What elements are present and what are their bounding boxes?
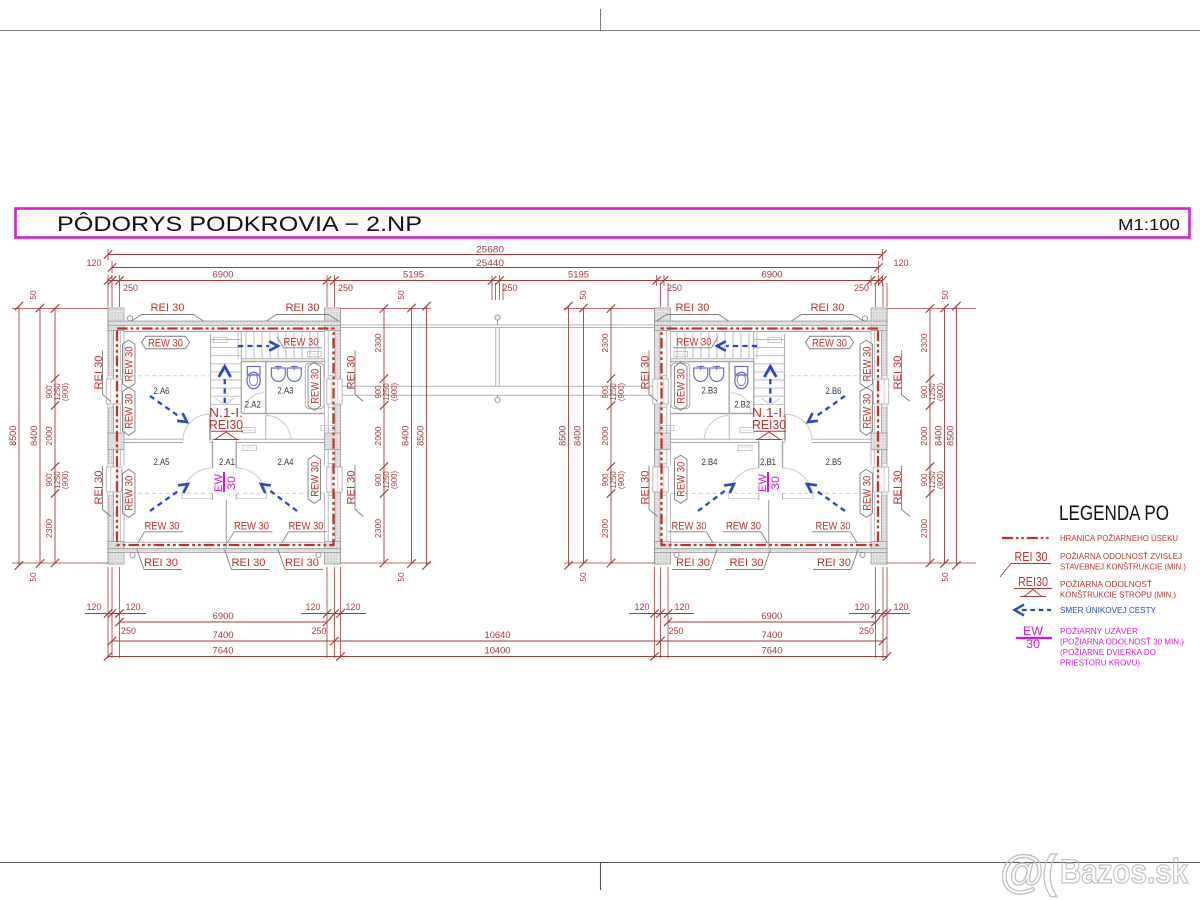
svg-text:2000: 2000 <box>919 426 929 445</box>
svg-text:(900): (900) <box>61 470 70 489</box>
svg-text:REI30: REI30 <box>209 418 243 432</box>
bathtub <box>305 363 324 408</box>
svg-text:30: 30 <box>226 476 238 490</box>
escape arrows <box>698 341 845 511</box>
svg-text:8500: 8500 <box>946 426 956 446</box>
svg-text:REW 30: REW 30 <box>234 521 269 533</box>
svg-text:2.B4: 2.B4 <box>702 457 718 467</box>
svg-text:8500: 8500 <box>8 426 18 446</box>
svg-text:REW 30: REW 30 <box>124 347 136 382</box>
svg-text:REW 30: REW 30 <box>726 521 761 533</box>
svg-text:REI 30: REI 30 <box>817 557 851 569</box>
svg-text:50: 50 <box>579 290 588 300</box>
svg-text:50: 50 <box>941 290 950 300</box>
svg-text:REW 30: REW 30 <box>148 338 183 350</box>
svg-text:REW 30: REW 30 <box>861 476 873 511</box>
unit walls <box>106 308 342 564</box>
room labels <box>702 386 842 468</box>
legend item REI30 ceiling <box>1014 575 1176 600</box>
svg-text:(900): (900) <box>617 382 626 401</box>
svg-text:REI 30: REI 30 <box>640 471 652 505</box>
svg-text:(900): (900) <box>390 382 399 401</box>
svg-text:REW 30: REW 30 <box>309 369 321 404</box>
svg-text:REI 30: REI 30 <box>640 356 652 390</box>
svg-text:250: 250 <box>669 626 684 636</box>
svg-text:6900: 6900 <box>213 611 234 621</box>
svg-text:REI 30: REI 30 <box>892 471 904 505</box>
svg-text:120: 120 <box>306 602 321 612</box>
svg-text:SMER ÚNIKOVEJ CESTY: SMER ÚNIKOVEJ CESTY <box>1060 605 1157 615</box>
svg-text:POŽIARNA ODOLNOSŤ ZVISLEJ: POŽIARNA ODOLNOSŤ ZVISLEJ <box>1060 551 1182 561</box>
svg-text:250: 250 <box>854 283 869 293</box>
svg-text:REW 30: REW 30 <box>124 476 136 511</box>
svg-text:8400: 8400 <box>573 426 583 446</box>
unit inner partitions <box>670 332 871 549</box>
svg-text:REW 30: REW 30 <box>676 369 688 404</box>
svg-text:REW 30: REW 30 <box>677 337 712 349</box>
svg-text:5195: 5195 <box>568 270 589 280</box>
bathtub <box>671 363 690 408</box>
svg-text:2.B2: 2.B2 <box>734 400 750 410</box>
page top rule <box>0 9 1200 31</box>
left unit geometry <box>106 308 342 564</box>
REW 30 labels <box>668 336 873 543</box>
svg-text:120: 120 <box>87 602 102 612</box>
legend title LEGENDA PO <box>1059 501 1169 525</box>
top dimension chains <box>87 245 909 308</box>
svg-text:8400: 8400 <box>401 426 411 446</box>
EW 30 fire door label <box>213 472 238 492</box>
svg-text:7400: 7400 <box>213 630 234 640</box>
svg-text:250: 250 <box>667 283 682 293</box>
toilet <box>735 367 748 389</box>
svg-text:LEGENDA PO: LEGENDA PO <box>1059 501 1169 525</box>
svg-text:2.A2: 2.A2 <box>245 400 261 410</box>
svg-text:REW 30: REW 30 <box>861 394 873 429</box>
svg-text:250: 250 <box>503 283 518 293</box>
svg-text:120: 120 <box>855 602 870 612</box>
legend item fire boundary <box>1002 533 1178 543</box>
svg-text:REI 30: REI 30 <box>93 471 105 505</box>
svg-text:25440: 25440 <box>476 258 504 268</box>
svg-text:250: 250 <box>338 283 353 293</box>
svg-text:50: 50 <box>579 572 588 582</box>
svg-text:2.B6: 2.B6 <box>826 386 842 396</box>
svg-text:250: 250 <box>123 283 138 293</box>
svg-text:PÔDORYS PODKROVIA − 2.NP: PÔDORYS PODKROVIA − 2.NP <box>57 213 422 236</box>
svg-text:6900: 6900 <box>762 270 783 280</box>
svg-text:2.A3: 2.A3 <box>278 386 294 396</box>
svg-text:REI30: REI30 <box>752 418 786 432</box>
svg-text:2300: 2300 <box>44 519 54 538</box>
REW 30 labels <box>122 336 327 543</box>
svg-text:(900): (900) <box>390 470 399 489</box>
vertical dimension chains <box>8 290 976 582</box>
svg-text:REI 30: REI 30 <box>346 471 358 505</box>
svg-text:2000: 2000 <box>373 426 383 445</box>
svg-text:2000: 2000 <box>44 426 54 445</box>
svg-text:REI 30: REI 30 <box>892 356 904 390</box>
svg-text:120: 120 <box>126 602 141 612</box>
unit walls <box>653 308 889 564</box>
svg-text:5195: 5195 <box>403 270 424 280</box>
svg-text:REI 30: REI 30 <box>151 302 185 314</box>
svg-text:2300: 2300 <box>600 519 610 538</box>
svg-text:REI 30: REI 30 <box>676 557 710 569</box>
svg-text:(900): (900) <box>617 470 626 489</box>
svg-text:REI 30: REI 30 <box>811 302 845 314</box>
svg-text:2.A5: 2.A5 <box>154 457 170 467</box>
svg-text:REI 30: REI 30 <box>346 356 358 390</box>
svg-text:10400: 10400 <box>485 646 511 656</box>
svg-text:120: 120 <box>346 602 361 612</box>
svg-text:2300: 2300 <box>600 333 610 352</box>
svg-text:120: 120 <box>675 602 690 612</box>
svg-text:HRANICA POŽIARNEHO ÚSEKU: HRANICA POŽIARNEHO ÚSEKU <box>1060 533 1178 543</box>
svg-text:REW 30: REW 30 <box>861 347 873 382</box>
svg-text:50: 50 <box>941 572 950 582</box>
REI 30 labels around unit <box>93 302 364 570</box>
washbasins <box>271 366 301 382</box>
svg-text:REW 30: REW 30 <box>145 521 180 533</box>
svg-text:120: 120 <box>894 258 909 268</box>
svg-text:6900: 6900 <box>761 611 782 621</box>
fire boundary <box>117 329 334 546</box>
small level labels <box>214 337 335 450</box>
svg-text:REW 30: REW 30 <box>676 462 688 497</box>
svg-text:REI 30: REI 30 <box>286 302 320 314</box>
svg-text:REI 30: REI 30 <box>93 356 105 390</box>
svg-text:8400: 8400 <box>934 426 944 446</box>
svg-text:Bazos.sk: Bazos.sk <box>1060 853 1188 891</box>
svg-text:8500: 8500 <box>416 426 426 446</box>
svg-text:2000: 2000 <box>600 426 610 445</box>
svg-text:25680: 25680 <box>476 245 504 255</box>
svg-text:50: 50 <box>397 572 406 582</box>
svg-text:8400: 8400 <box>29 426 39 446</box>
svg-text:2.B5: 2.B5 <box>826 457 842 467</box>
unit inner partitions <box>124 332 325 549</box>
svg-text:POŽIARNA ODOLNOSŤ: POŽIARNA ODOLNOSŤ <box>1060 579 1152 589</box>
REI 30 labels around unit <box>640 302 911 570</box>
svg-text:REI 30: REI 30 <box>285 557 319 569</box>
svg-text:(900): (900) <box>936 470 945 489</box>
svg-text:REI 30: REI 30 <box>1015 550 1048 564</box>
page bottom rule <box>0 863 1200 891</box>
svg-text:250: 250 <box>121 626 136 636</box>
svg-text:KONŠTRUKCIE STROPU (MIN.): KONŠTRUKCIE STROPU (MIN.) <box>1060 590 1176 600</box>
svg-text:2.A1: 2.A1 <box>219 457 235 467</box>
svg-text:2.A4: 2.A4 <box>278 457 294 467</box>
svg-text:REI 30: REI 30 <box>144 557 178 569</box>
svg-text:250: 250 <box>859 626 874 636</box>
washbasins <box>694 366 724 382</box>
fire boundary <box>662 329 879 546</box>
svg-text:2300: 2300 <box>919 519 929 538</box>
svg-text:2300: 2300 <box>373 519 383 538</box>
svg-text:REW 30: REW 30 <box>816 521 851 533</box>
svg-text:@(: @( <box>1000 846 1057 897</box>
svg-text:REW 30: REW 30 <box>124 394 136 429</box>
watermark <box>1000 846 1188 897</box>
svg-text:M1:100: M1:100 <box>1118 217 1180 234</box>
svg-text:POŽIARNY UZÁVER: POŽIARNY UZÁVER <box>1060 626 1138 636</box>
small level labels <box>661 337 782 450</box>
svg-text:120: 120 <box>894 602 909 612</box>
svg-text:50: 50 <box>29 290 38 300</box>
svg-text:EW: EW <box>1023 626 1043 638</box>
svg-text:7640: 7640 <box>213 646 234 656</box>
svg-text:2300: 2300 <box>373 333 383 352</box>
svg-text:REW 30: REW 30 <box>672 521 707 533</box>
svg-text:50: 50 <box>29 572 38 582</box>
svg-text:2.B3: 2.B3 <box>702 386 718 396</box>
svg-text:7640: 7640 <box>762 646 783 656</box>
svg-text:30: 30 <box>1026 639 1040 651</box>
svg-text:STAVEBNEJ KONŠTRUKCIE (MIN.): STAVEBNEJ KONŠTRUKCIE (MIN.) <box>1060 562 1186 572</box>
svg-text:REW 30: REW 30 <box>289 521 324 533</box>
svg-text:REW 30: REW 30 <box>284 337 319 349</box>
legend item EW 30 fire door <box>1016 626 1184 668</box>
title box <box>16 209 1190 238</box>
svg-text:250: 250 <box>312 626 327 636</box>
svg-text:2.A6: 2.A6 <box>154 386 170 396</box>
svg-text:(POŽIARNA ODOLNOSŤ 30 MIN.): (POŽIARNA ODOLNOSŤ 30 MIN.) <box>1060 637 1184 647</box>
legend item REI 30 wall <box>1000 550 1186 577</box>
svg-text:REW 30: REW 30 <box>309 462 321 497</box>
svg-text:10640: 10640 <box>485 630 511 640</box>
legend item escape route <box>1015 605 1157 616</box>
svg-text:REI 30: REI 30 <box>676 302 710 314</box>
svg-text:(900): (900) <box>936 382 945 401</box>
svg-text:REI 30: REI 30 <box>232 557 266 569</box>
svg-text:2.B1: 2.B1 <box>760 457 776 467</box>
svg-text:(POŽIARNE DVIERKA DO: (POŽIARNE DVIERKA DO <box>1060 647 1156 657</box>
svg-text:120: 120 <box>87 258 102 268</box>
room labels <box>154 386 294 468</box>
svg-text:REI30: REI30 <box>1018 575 1048 589</box>
svg-text:REW 30: REW 30 <box>812 338 847 350</box>
svg-text:2300: 2300 <box>919 333 929 352</box>
toilet <box>247 367 260 389</box>
fire compartment label N.1-I. REI30 <box>209 406 243 440</box>
right unit geometry (mirrored) <box>653 308 889 564</box>
escape arrows <box>150 341 297 511</box>
svg-text:6900: 6900 <box>213 270 234 280</box>
svg-text:PRIESTORU KROVU): PRIESTORU KROVU) <box>1060 659 1140 668</box>
svg-text:120: 120 <box>635 602 650 612</box>
EW 30 fire door label <box>757 472 782 492</box>
svg-text:50: 50 <box>397 290 406 300</box>
bottom dimension chains <box>85 567 910 661</box>
svg-text:(900): (900) <box>61 382 70 401</box>
svg-text:REI 30: REI 30 <box>730 557 764 569</box>
connecting roof lines between units <box>341 315 655 403</box>
fire compartment label N.1-I. REI30 <box>752 406 786 440</box>
svg-text:8500: 8500 <box>558 426 568 446</box>
svg-text:30: 30 <box>770 476 782 490</box>
svg-text:7400: 7400 <box>762 630 783 640</box>
